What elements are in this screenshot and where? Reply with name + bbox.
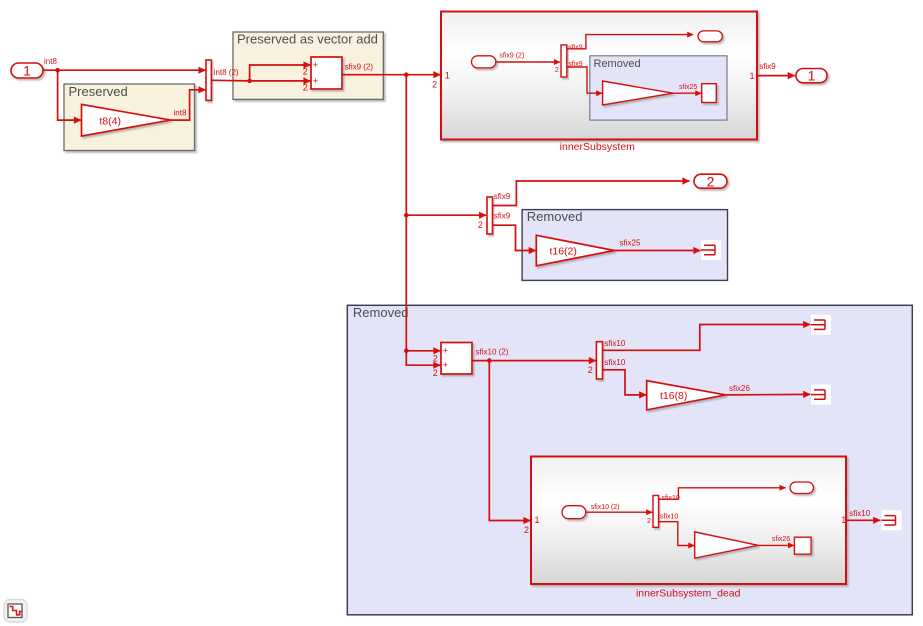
svg-text:sfix25: sfix25 (679, 84, 697, 91)
demux2 (596, 342, 602, 379)
svg-text:innerSubsystem_dead: innerSubsystem_dead (636, 588, 741, 600)
node main junction top (404, 72, 409, 77)
wire main vertical (405, 75, 407, 351)
mux Mux (206, 60, 211, 100)
svg-text:2: 2 (524, 525, 529, 535)
box Removed mid (522, 210, 727, 281)
demux mid (487, 197, 493, 234)
inner wire gain to convert (673, 92, 701, 94)
inner wire inport to mux (496, 61, 560, 63)
out bus element dead (882, 510, 902, 530)
svg-text:sfix10 (2): sfix10 (2) (476, 348, 509, 357)
svg-text:sfix9: sfix9 (568, 44, 583, 51)
gain t16(8) (647, 381, 726, 410)
svg-text:Removed: Removed (353, 305, 409, 320)
svg-text:2: 2 (647, 518, 651, 525)
svg-text:1: 1 (841, 515, 846, 525)
svg-text:2: 2 (432, 79, 437, 89)
svg-text:sfix25: sfix25 (620, 238, 641, 247)
outport Out1 (796, 69, 827, 83)
wire Add to innerSubsystem (342, 74, 441, 76)
inner inport oval (472, 56, 496, 68)
svg-text:1: 1 (535, 515, 540, 525)
svg-text:+: + (313, 60, 318, 70)
svg-text:sfix10: sfix10 (660, 513, 678, 520)
wire junction to Add2 input2 (406, 351, 440, 365)
inner wire mux to top oval (567, 35, 693, 49)
svg-text:Removed: Removed (527, 209, 583, 224)
dead wire mux to gain (659, 522, 695, 546)
svg-text:1: 1 (808, 68, 816, 84)
wire Mux to Add (211, 79, 310, 82)
dead wire inport to mux (586, 511, 653, 513)
svg-text:2: 2 (303, 67, 308, 77)
svg-text:sfix10: sfix10 (604, 339, 625, 348)
dead gain triangle (695, 532, 758, 558)
svg-text:+: + (443, 360, 448, 370)
sum Add2 (441, 343, 472, 375)
svg-text:sfix9 (2): sfix9 (2) (345, 62, 374, 71)
node junction vector (247, 79, 252, 84)
svg-text:2: 2 (303, 83, 308, 93)
wire In1 to Mux (43, 69, 206, 71)
svg-text:sfix9: sfix9 (759, 62, 776, 71)
wire dead to bus out (846, 519, 880, 521)
svg-text:t16(2): t16(2) (549, 245, 576, 257)
svg-text:1: 1 (445, 71, 450, 81)
inner box Removed (590, 56, 727, 120)
svg-text:2: 2 (707, 173, 715, 189)
svg-text:2: 2 (433, 354, 438, 364)
svg-text:2: 2 (588, 365, 593, 375)
wire junction to gain t8 (58, 70, 81, 120)
wire innerSubsystem to Out1 (757, 75, 795, 77)
wire demux2 to bus out top (603, 325, 811, 351)
subsystem innerSubsystem_dead (531, 457, 846, 585)
wire main vertical inside big box (405, 305, 407, 351)
svg-text:sfix9: sfix9 (494, 192, 511, 201)
gain t16(2) (536, 235, 614, 265)
node junction In1 (55, 68, 60, 73)
wire junction to Add2 input1 (406, 350, 440, 352)
svg-text:2: 2 (555, 67, 559, 74)
wire gain t8 to Mux (171, 90, 206, 120)
sum Add (311, 57, 342, 89)
out bus element mid2 (811, 385, 831, 405)
svg-text:t16(8): t16(8) (660, 390, 687, 402)
svg-text:+: + (443, 345, 448, 355)
model badge (4, 600, 27, 623)
inner mux (561, 45, 567, 77)
inner wire mux to gain (567, 67, 602, 93)
out bus element mid (701, 240, 721, 260)
out bus element top (811, 315, 831, 335)
node main junction mid (404, 213, 409, 218)
node junction Add2 out (487, 358, 492, 363)
dead top outport oval (790, 482, 814, 494)
svg-text:Removed: Removed (594, 58, 641, 70)
inner convert block (702, 84, 717, 103)
svg-text:sfix10: sfix10 (849, 509, 870, 518)
dead wire gain to convert (758, 544, 794, 546)
dead convert block (794, 537, 811, 554)
box Removed big (347, 305, 912, 615)
wire junction down to innerSubsystem_dead (489, 361, 530, 521)
gain t8(4) (82, 104, 171, 136)
svg-text:+: + (313, 76, 318, 86)
outport Out2 (694, 174, 727, 188)
inport In1 (11, 63, 43, 78)
svg-text:1: 1 (750, 71, 755, 81)
subsystem innerSubsystem (441, 12, 757, 140)
inner top outport oval (698, 31, 722, 42)
svg-text:t8(4): t8(4) (99, 115, 121, 127)
wire t16(2) to bus out (614, 250, 700, 252)
svg-text:sfix9: sfix9 (494, 211, 511, 220)
subsystem box Preserved as vector add (233, 32, 383, 99)
wire Add2 to demux2 (472, 360, 596, 362)
wire t16(8) to bus out (726, 393, 811, 396)
svg-text:Preserved: Preserved (69, 84, 128, 99)
svg-text:int8: int8 (174, 108, 187, 117)
node junction big (404, 349, 409, 354)
svg-text:sfix10: sfix10 (662, 495, 680, 502)
svg-text:sfix26: sfix26 (772, 536, 790, 543)
svg-text:2: 2 (433, 368, 438, 378)
svg-text:sfix10: sfix10 (604, 358, 625, 367)
wire demux to Out2 (493, 181, 690, 206)
svg-text:int8 (2): int8 (2) (214, 68, 239, 77)
svg-text:int8: int8 (44, 57, 57, 66)
wire branch to Add input 1 (250, 65, 311, 81)
subsystem box Preserved (64, 84, 195, 151)
svg-text:2: 2 (478, 220, 483, 230)
wire junction to demux (406, 214, 486, 216)
svg-text:1: 1 (23, 63, 31, 79)
svg-text:Preserved as vector add: Preserved as vector add (237, 32, 378, 47)
svg-text:sfix26: sfix26 (729, 384, 750, 393)
dead mux (653, 496, 659, 528)
svg-text:innerSubsystem: innerSubsystem (560, 141, 636, 153)
svg-text:sfix9 (2): sfix9 (2) (499, 53, 524, 60)
dead inport oval (562, 506, 586, 519)
inner gain triangle (603, 81, 673, 105)
svg-text:sfix10 (2): sfix10 (2) (591, 504, 620, 511)
wire demux2 to gain t16(8) (603, 370, 647, 395)
dead wire mux to top oval (659, 488, 786, 499)
wire demux to gain t16(2) (493, 225, 536, 250)
